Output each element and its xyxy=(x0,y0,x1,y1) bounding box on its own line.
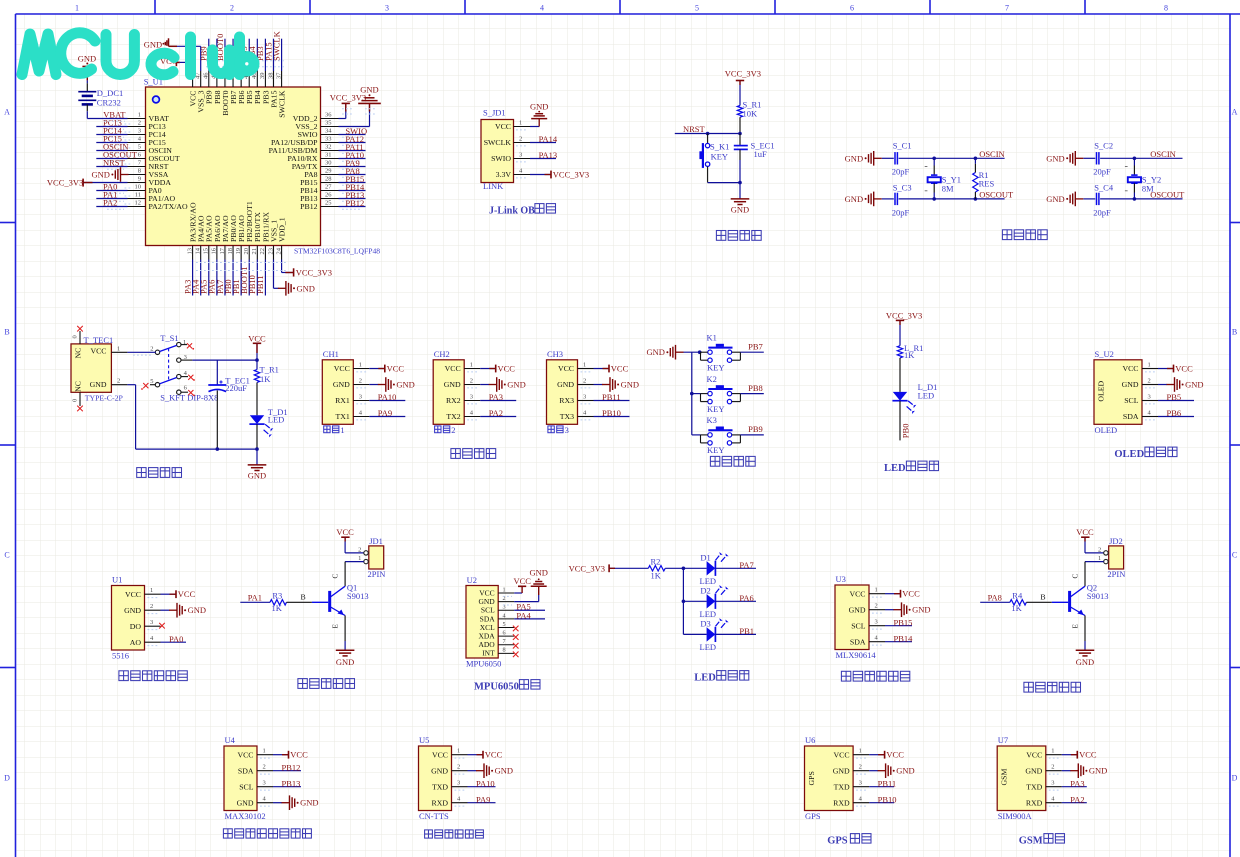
svg-text:TX1: TX1 xyxy=(336,412,350,421)
svg-text:VCC: VCC xyxy=(90,347,106,356)
svg-text:0: 0 xyxy=(72,335,79,338)
svg-text:13: 13 xyxy=(186,248,193,255)
net label PB8 wire at U1 top pin 45 xyxy=(207,39,217,71)
svg-text:6: 6 xyxy=(850,4,854,13)
net label PA10 wire from U1 pin 31 xyxy=(339,150,366,161)
title GPS module xyxy=(827,834,871,847)
svg-text:20pF: 20pF xyxy=(1093,207,1111,217)
svg-text:NRST: NRST xyxy=(103,158,126,168)
svg-text:RES: RES xyxy=(979,179,995,189)
svg-text:GND: GND xyxy=(297,283,315,293)
svg-text:PA8: PA8 xyxy=(988,593,1002,603)
ground GND of reset circuit xyxy=(731,199,750,215)
net label PA11 wire from U1 pin 32 xyxy=(339,142,366,153)
svg-text:TXD: TXD xyxy=(1026,782,1042,791)
net label SWIO wire from U1 pin 34 xyxy=(339,126,368,137)
svg-text:4: 4 xyxy=(503,612,506,619)
net label PA9 wire at U5 pin 4 xyxy=(468,794,496,804)
LED T_D1 of power circuit xyxy=(249,407,287,449)
ground GND at capacitor S_C4 xyxy=(1046,192,1095,207)
IC S_U2 body xyxy=(1094,349,1158,435)
net label PB13 wire from U1 pin 26 xyxy=(339,190,366,201)
svg-text:KEY: KEY xyxy=(707,363,724,373)
ground GND at S_U2 pin 2 xyxy=(1158,377,1204,392)
svg-text:GND: GND xyxy=(1046,153,1064,163)
svg-text:GND: GND xyxy=(90,380,107,389)
svg-text:PA0: PA0 xyxy=(169,634,183,644)
ground GND at CH2 pin 2 xyxy=(480,377,526,392)
svg-text:PB5: PB5 xyxy=(1167,392,1182,402)
power VCC at U4 pin 1 xyxy=(273,750,308,760)
net label PB4 wire at U1 top pin 40 xyxy=(247,39,257,71)
svg-text:D_DC1: D_DC1 xyxy=(97,88,123,98)
svg-text:5516: 5516 xyxy=(112,651,129,661)
power VCC at U7 pin 1 xyxy=(1062,750,1097,760)
net label PB5 wire at U1 top pin 41 xyxy=(239,39,249,71)
svg-text:28: 28 xyxy=(325,176,332,183)
svg-text:MLX90614: MLX90614 xyxy=(836,650,877,660)
svg-text:GND: GND xyxy=(507,380,525,390)
ground GND of key circuit xyxy=(646,345,701,360)
svg-text:1: 1 xyxy=(1051,748,1054,755)
svg-text:15: 15 xyxy=(203,248,210,255)
svg-text:GND: GND xyxy=(495,766,513,776)
svg-text:PA9: PA9 xyxy=(378,408,392,418)
svg-text:RX2: RX2 xyxy=(446,396,461,405)
svg-text:JD1: JD1 xyxy=(369,536,383,546)
svg-text:A: A xyxy=(4,108,10,117)
svg-text:2: 2 xyxy=(117,378,120,385)
svg-text:T_R1: T_R1 xyxy=(260,365,279,375)
svg-text:TYPE-C-2P: TYPE-C-2P xyxy=(85,393,124,402)
IC U1 body xyxy=(112,575,161,661)
svg-text:T_TEC1: T_TEC1 xyxy=(84,335,114,345)
resistor R4 1K base of Q2 xyxy=(1010,590,1068,613)
net label PB0 vertical xyxy=(900,424,910,439)
net label OSCIN wire to U1 pin 5 xyxy=(96,142,130,154)
svg-text:46: 46 xyxy=(203,72,210,79)
svg-text:1: 1 xyxy=(183,339,186,346)
svg-text:CH2: CH2 xyxy=(434,349,450,359)
svg-text:RXD: RXD xyxy=(432,798,449,807)
svg-text:9: 9 xyxy=(138,176,141,183)
svg-text:MPU6050: MPU6050 xyxy=(474,682,519,693)
title key circuit xyxy=(710,456,755,466)
svg-text:GND: GND xyxy=(530,101,548,111)
net label BOOT0 wire at U1 top pin 44 xyxy=(215,34,225,71)
ground GND at U7 pin 2 xyxy=(1062,763,1108,778)
label chuan-kou-2 under CH2 xyxy=(435,425,456,435)
switch S_K1 KEY reset button xyxy=(699,134,729,183)
net label PA14 wire at S_JD1 pin 2 xyxy=(530,134,558,144)
svg-text:RX1: RX1 xyxy=(335,396,350,405)
svg-text:GND: GND xyxy=(396,380,414,390)
no-connect X at U2 pin 6 xyxy=(513,634,519,640)
resistor T_R1 1K xyxy=(254,360,279,415)
svg-text:PA2: PA2 xyxy=(489,408,503,418)
switch K2 KEY push button xyxy=(701,374,741,414)
IC U5 body xyxy=(419,735,468,821)
svg-text:PA9: PA9 xyxy=(476,794,490,804)
svg-text:2: 2 xyxy=(519,136,522,143)
svg-text:D: D xyxy=(4,774,10,783)
svg-text:11: 11 xyxy=(135,192,141,199)
svg-text:5: 5 xyxy=(503,621,506,628)
svg-text:GND: GND xyxy=(849,605,866,614)
ground GND at capacitor S_C1 xyxy=(845,151,894,166)
power VCC_3V3 of LED lamp circuit xyxy=(886,311,922,346)
power VCC at U1 pin 1 xyxy=(161,589,196,599)
svg-text:3: 3 xyxy=(859,780,862,787)
no-connect X at switch pin 4 xyxy=(181,375,195,381)
wire reset bottom xyxy=(708,181,742,199)
svg-text:GND: GND xyxy=(845,153,863,163)
power VCC at U6 pin 1 xyxy=(869,750,904,760)
svg-text:3: 3 xyxy=(875,619,878,626)
svg-text:19: 19 xyxy=(235,248,242,255)
svg-text:PA1: PA1 xyxy=(248,593,262,603)
svg-text:2: 2 xyxy=(150,603,153,610)
label chuan-kou-1 under CH1 xyxy=(324,425,345,435)
svg-text:32: 32 xyxy=(325,144,332,151)
svg-text:3: 3 xyxy=(457,780,460,787)
title LED lamp circuit bottom xyxy=(694,671,749,684)
svg-text:CN-TTS: CN-TTS xyxy=(419,811,449,821)
svg-text:31: 31 xyxy=(325,152,332,159)
net label PB13 wire at U4 pin 3 xyxy=(273,778,301,788)
power VCC at U5 pin 1 xyxy=(468,750,503,760)
net label PB11 wire at U6 pin 3 xyxy=(869,778,896,788)
svg-text:20pF: 20pF xyxy=(892,207,910,217)
switch K1 KEY push button xyxy=(701,333,741,373)
title reset circuit xyxy=(716,231,761,241)
power VCC of Q2 circuit xyxy=(1076,527,1104,553)
svg-text:RXD: RXD xyxy=(833,798,850,807)
svg-text:LED: LED xyxy=(700,642,717,652)
svg-text:D: D xyxy=(1232,774,1238,783)
svg-text:1uF: 1uF xyxy=(754,149,768,159)
no-connect X at U2 pin 7 xyxy=(513,643,519,649)
net label PA10 wire at CH1 pin 3 xyxy=(369,392,405,402)
svg-text:8: 8 xyxy=(138,168,141,175)
svg-text:VCC: VCC xyxy=(514,576,532,586)
svg-text:TX2: TX2 xyxy=(446,412,460,421)
svg-text:1: 1 xyxy=(75,4,79,13)
svg-text:30: 30 xyxy=(325,160,332,167)
svg-text:SWIO: SWIO xyxy=(491,154,511,163)
svg-text:8: 8 xyxy=(503,647,506,654)
net label PB11 wire at CH3 pin 3 xyxy=(594,392,630,402)
svg-text:PA2: PA2 xyxy=(103,198,117,208)
svg-text:RX3: RX3 xyxy=(559,396,574,405)
svg-text:SDA: SDA xyxy=(1123,412,1139,421)
net label PB6 wire at U1 top pin 42 xyxy=(231,39,241,71)
svg-text:KEY: KEY xyxy=(711,151,728,161)
svg-text:VCC: VCC xyxy=(834,750,850,759)
power VCC_3V3 to U1 pin 9 VDDA xyxy=(47,178,128,188)
no-connect X at U2 pin 8 xyxy=(513,652,519,658)
resistor S_R1 10K xyxy=(737,100,761,134)
svg-text:RXD: RXD xyxy=(1026,798,1043,807)
svg-text:TXD: TXD xyxy=(834,782,850,791)
svg-text:PB12: PB12 xyxy=(345,198,364,208)
ground GND of Q2 circuit xyxy=(1076,650,1095,667)
wire VBAT from battery to U1 pin 1 xyxy=(87,104,127,121)
svg-text:VCC: VCC xyxy=(495,122,511,131)
net label NRST wire to U1 pin 7 xyxy=(96,158,130,170)
svg-text:35: 35 xyxy=(325,120,332,127)
svg-text:LED: LED xyxy=(884,463,906,474)
svg-text:STM32F103C8T6_LQFP48: STM32F103C8T6_LQFP48 xyxy=(294,247,380,256)
svg-text:1K: 1K xyxy=(904,350,915,360)
svg-text:PB10: PB10 xyxy=(602,408,621,418)
svg-text:1K: 1K xyxy=(260,374,271,384)
title LED lamp circuit top xyxy=(884,461,939,474)
wire key trunk xyxy=(690,352,701,435)
net label PB14 wire from U1 pin 27 xyxy=(339,182,366,193)
svg-text:CH3: CH3 xyxy=(547,349,563,359)
svg-text:34: 34 xyxy=(325,128,332,135)
ground GND at capacitor S_C2 xyxy=(1046,151,1095,166)
svg-text:GPS: GPS xyxy=(807,771,816,785)
svg-text:5: 5 xyxy=(138,144,141,151)
svg-text:SWCLK: SWCLK xyxy=(277,90,286,118)
svg-text:VCC: VCC xyxy=(248,334,266,344)
svg-text:5: 5 xyxy=(695,4,699,13)
svg-text:GND: GND xyxy=(333,380,350,389)
svg-text:S_K1: S_K1 xyxy=(710,142,729,152)
svg-text:2: 2 xyxy=(230,4,234,13)
svg-text:2: 2 xyxy=(359,378,362,385)
svg-text:1: 1 xyxy=(470,362,473,369)
svg-text:SDA: SDA xyxy=(850,637,866,646)
capacitor T_EC1 220uF xyxy=(208,360,250,449)
svg-text:2PIN: 2PIN xyxy=(1107,569,1125,579)
svg-text:10: 10 xyxy=(135,184,142,191)
title crystal circuit xyxy=(1002,230,1047,240)
svg-text:S_C3: S_C3 xyxy=(893,183,912,193)
svg-text:K1: K1 xyxy=(707,333,717,343)
net label PB10 wire at U6 pin 4 xyxy=(869,794,896,804)
ground GND at U1 pin 23 VSS_1 xyxy=(274,260,315,296)
ground GND at U1 pin 8 VSSA xyxy=(91,167,128,182)
no-connect X at switch pin 1 xyxy=(181,343,194,349)
svg-text:SCL: SCL xyxy=(851,621,866,630)
dotted marks bottom pins xyxy=(196,263,286,271)
svg-text:PA13: PA13 xyxy=(539,150,558,160)
svg-text:GND: GND xyxy=(1025,766,1042,775)
ground GND at U3 pin 2 xyxy=(885,602,931,617)
title GSM module xyxy=(1019,834,1065,847)
svg-text:2: 2 xyxy=(583,378,586,385)
svg-text:GND: GND xyxy=(444,380,461,389)
svg-text:PA3: PA3 xyxy=(489,392,503,402)
svg-text:VCC: VCC xyxy=(445,364,461,373)
ground GND at CH3 pin 2 xyxy=(594,377,640,392)
svg-text:VCC_3V3: VCC_3V3 xyxy=(553,170,589,180)
svg-text:VCC_3V3: VCC_3V3 xyxy=(886,311,922,321)
svg-text:24: 24 xyxy=(275,247,282,254)
svg-text:1: 1 xyxy=(519,120,522,127)
svg-text:2: 2 xyxy=(859,764,862,771)
svg-text:PB12: PB12 xyxy=(300,202,317,211)
svg-text:VCC: VCC xyxy=(485,750,503,760)
svg-text:PA14: PA14 xyxy=(539,134,558,144)
no-connect pin 0 bottom of T_TEC1 xyxy=(72,392,83,411)
svg-text:3: 3 xyxy=(150,619,153,626)
svg-text:KEY: KEY xyxy=(707,445,724,455)
net label PB11 wire at U1 bottom pin 22 xyxy=(255,260,265,296)
title heart rate module xyxy=(223,829,311,838)
svg-text:TX3: TX3 xyxy=(560,412,574,421)
svg-text:NRST: NRST xyxy=(683,124,706,134)
svg-text:VCC: VCC xyxy=(334,364,350,373)
svg-text:1: 1 xyxy=(150,587,153,594)
S_U1 MCU pins left side 1-12 xyxy=(128,112,189,211)
net label PA5 wire at U2 pin 3 xyxy=(514,602,545,612)
power port VCC of power circuit xyxy=(248,334,266,361)
svg-text:2: 2 xyxy=(470,378,473,385)
net label PB7 wire from K1 xyxy=(740,342,763,353)
net label PB3 wire at U1 top pin 39 xyxy=(255,39,265,71)
ground GND at U1 pin 2 xyxy=(161,603,207,618)
svg-text:NC: NC xyxy=(73,348,82,359)
svg-text:3: 3 xyxy=(565,425,569,435)
crystal S_Y1 8M xyxy=(925,158,961,199)
svg-text:GND: GND xyxy=(91,170,109,180)
svg-text:NC: NC xyxy=(73,381,82,392)
svg-text:1: 1 xyxy=(457,748,460,755)
svg-text:23: 23 xyxy=(267,248,274,255)
svg-text:1: 1 xyxy=(875,587,878,594)
net label PA12 wire from U1 pin 33 xyxy=(339,134,366,145)
svg-text:14: 14 xyxy=(194,247,201,254)
net label PB1 wire from LED D3 xyxy=(716,626,756,636)
svg-text:MAX30102: MAX30102 xyxy=(225,811,266,821)
svg-text:38: 38 xyxy=(267,73,274,80)
svg-text:S_JD1: S_JD1 xyxy=(483,108,506,118)
net label PB10 wire at CH3 pin 4 xyxy=(594,408,630,418)
svg-text:SDA: SDA xyxy=(238,766,254,775)
svg-text:VCC: VCC xyxy=(125,590,141,599)
power VCC_3V3 at U1 pin 24 VDD_1 xyxy=(282,260,332,278)
svg-text:3.3V: 3.3V xyxy=(496,170,512,179)
LED L_D1 xyxy=(892,382,937,440)
svg-text:3: 3 xyxy=(1051,780,1054,787)
svg-text:2: 2 xyxy=(1148,378,1151,385)
svg-text:1: 1 xyxy=(359,362,362,369)
svg-text:VDD_1: VDD_1 xyxy=(277,217,286,242)
connector T_TEC1 TYPE-C-2P xyxy=(71,335,127,403)
net label PC14 wire to U1 pin 3 xyxy=(96,126,130,138)
svg-text:17: 17 xyxy=(219,247,226,254)
ground GND at U2 pin 2 xyxy=(503,568,548,605)
MCUclub logo xyxy=(22,33,254,75)
svg-text:VCC: VCC xyxy=(237,750,253,759)
svg-text:PB9: PB9 xyxy=(748,424,763,434)
title power circuit xyxy=(137,468,182,478)
svg-text:VCC: VCC xyxy=(558,364,574,373)
net label PB15 wire at U3 pin 3 xyxy=(885,617,912,627)
svg-text:VCC: VCC xyxy=(611,364,629,374)
svg-text:OLED: OLED xyxy=(1095,425,1118,435)
capacitor S_EC1 1uF xyxy=(734,134,775,183)
svg-text:3: 3 xyxy=(1148,394,1151,401)
svg-text:6: 6 xyxy=(503,630,506,637)
svg-text:OLED: OLED xyxy=(1114,449,1144,460)
title infrared temperature module xyxy=(841,671,909,681)
net label PA3 wire at CH2 pin 3 xyxy=(480,392,516,402)
svg-text:PB11: PB11 xyxy=(602,392,621,402)
svg-text:GND: GND xyxy=(336,657,354,667)
svg-text:SWCLK: SWCLK xyxy=(484,138,512,147)
net label PB15 wire from U1 pin 28 xyxy=(339,174,366,185)
title Q2 circuit xyxy=(1024,682,1081,692)
capacitor S_C2 20pF xyxy=(1093,141,1113,177)
svg-text:VBAT: VBAT xyxy=(103,109,126,119)
switch K3 KEY push button xyxy=(701,415,741,455)
svg-text:S_C2: S_C2 xyxy=(1094,141,1113,151)
svg-text:GND: GND xyxy=(621,380,639,390)
LED D1 xyxy=(700,552,729,586)
svg-text:LED: LED xyxy=(918,390,935,400)
svg-text:GND: GND xyxy=(529,568,547,578)
svg-text:220uF: 220uF xyxy=(225,383,247,393)
svg-text:PB0: PB0 xyxy=(900,424,910,439)
svg-text:2: 2 xyxy=(1098,546,1101,553)
net label PA7 wire from LED D1 xyxy=(716,560,756,570)
svg-text:VCC: VCC xyxy=(1175,364,1193,374)
svg-text:PB8: PB8 xyxy=(748,383,763,393)
net label PA2 wire at CH2 pin 4 xyxy=(480,408,516,418)
S_U1 MCU pins bottom side 13-24 xyxy=(186,201,286,259)
title J-Link OB interface xyxy=(489,204,556,217)
svg-text:PB12: PB12 xyxy=(282,762,301,772)
svg-text:VCC: VCC xyxy=(432,750,448,759)
svg-text:3: 3 xyxy=(470,394,473,401)
no-connect X at switch pin 6 xyxy=(181,390,195,396)
svg-text:4: 4 xyxy=(540,4,544,13)
svg-text:7: 7 xyxy=(1005,4,1009,13)
svg-text:B: B xyxy=(4,328,9,337)
svg-text:S_U2: S_U2 xyxy=(1095,349,1114,359)
ground GND at U5 pin 2 xyxy=(468,763,514,778)
power VCC of Q1 circuit xyxy=(336,527,364,553)
svg-text:SWCLK: SWCLK xyxy=(271,30,281,61)
connector JD2 2PIN xyxy=(1098,536,1125,579)
svg-text:AO: AO xyxy=(130,638,142,647)
svg-text:21: 21 xyxy=(251,248,258,255)
svg-text:VCC: VCC xyxy=(178,589,196,599)
S_U1 MCU pins right side 25-36 xyxy=(269,112,339,211)
svg-text:D3: D3 xyxy=(700,618,710,628)
svg-text:GND: GND xyxy=(845,194,863,204)
svg-text:GND: GND xyxy=(557,380,574,389)
svg-text:0: 0 xyxy=(72,399,79,402)
svg-text:PA2: PA2 xyxy=(1070,794,1084,804)
title light detect module xyxy=(119,671,187,681)
capacitor S_C1 20pF xyxy=(892,141,912,177)
svg-text:T_S1: T_S1 xyxy=(160,333,178,343)
svg-text:SCL: SCL xyxy=(1124,396,1139,405)
IC CH2 body xyxy=(433,349,480,424)
power VCC_3V3 at U1 pin 36 VDD_2 xyxy=(330,92,366,118)
svg-text:PB1: PB1 xyxy=(739,626,754,636)
svg-text:GND: GND xyxy=(248,470,266,480)
svg-text:E: E xyxy=(332,624,340,629)
svg-text:2: 2 xyxy=(875,603,878,610)
net label PB14 wire at U3 pin 4 xyxy=(885,633,913,643)
